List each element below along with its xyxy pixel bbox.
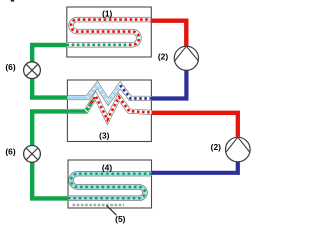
wire red: box1 outlet to pump P1 bbox=[151, 21, 187, 47]
svg-text:(4): (4) bbox=[102, 162, 112, 172]
pointer line of label (5) bbox=[106, 205, 116, 215]
green dashes bottom row coil1 bbox=[67, 43, 130, 46]
wire green: box1 inlet, down through valve V1, to box3 left top bbox=[32, 45, 67, 98]
green dashes along coil4 bbox=[68, 174, 152, 199]
box (1) condenser enclosure bbox=[67, 7, 152, 57]
box (3) heat exchanger enclosure bbox=[67, 80, 151, 142]
wire blue: pump P2 to box4 outlet bbox=[152, 162, 238, 173]
valve V2 (expansion) bbox=[24, 146, 41, 163]
svg-text:(6): (6) bbox=[5, 62, 15, 72]
wire red: box3 right bottom to pump P2 bbox=[152, 113, 238, 137]
svg-text:(6): (6) bbox=[5, 147, 15, 157]
valve V1 (expansion) bbox=[24, 62, 41, 79]
top zigzag tube (cold side) bbox=[67, 85, 151, 102]
svg-text:(2): (2) bbox=[158, 52, 168, 62]
zigzag tubes in box3 bbox=[67, 85, 151, 120]
svg-text:(1): (1) bbox=[102, 8, 112, 18]
wire green: box3 left bottom, down through valve V2, to box4 inlet bbox=[32, 111, 68, 198]
coil in box1: tube outline bbox=[67, 20, 151, 45]
faint gray text under coil4 bbox=[73, 204, 125, 206]
pump P1 bbox=[174, 46, 198, 70]
svg-text:(5): (5) bbox=[115, 214, 125, 224]
bottom zigzag tube (hot side) bbox=[67, 96, 151, 120]
artifact speck top-left bbox=[11, 0, 14, 2]
svg-text:(3): (3) bbox=[99, 130, 109, 140]
svg-text:(2): (2) bbox=[211, 142, 221, 152]
coil in box4: tube bbox=[68, 174, 152, 199]
red dashes along coil1 bbox=[71, 20, 151, 45]
box (4) evaporator enclosure bbox=[68, 160, 152, 208]
wire blue: pump P1 to box3 right top bbox=[152, 70, 187, 98]
pump P2 bbox=[226, 137, 251, 162]
